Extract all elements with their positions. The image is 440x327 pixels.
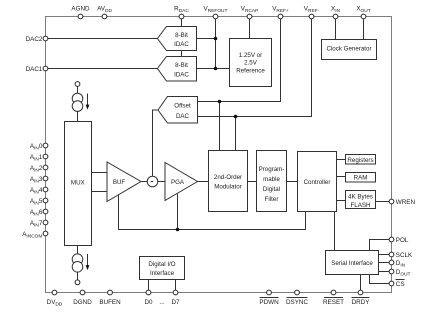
wire filter to controller — [287, 181, 298, 183]
svg-text:BUF: BUF — [113, 179, 126, 186]
svg-text:VREF-: VREF- — [304, 6, 320, 15]
svg-text:RDAC: RDAC — [174, 6, 189, 15]
buffer amp BUF — [107, 162, 141, 202]
svg-text:Modulator: Modulator — [214, 183, 242, 190]
wire serial interface to POL pin — [370, 240, 390, 251]
wire flash to WREN pin — [376, 201, 390, 203]
clock generator U_CLK — [322, 40, 377, 60]
pin RESET — [323, 290, 344, 306]
svg-text:RESET: RESET — [323, 299, 344, 306]
wire VREF- tap to modulator top — [235, 117, 237, 151]
svg-text:IDAC: IDAC — [174, 72, 189, 79]
wire digital IO to D0 pin — [148, 280, 150, 291]
svg-text:Clock Generator: Clock Generator — [326, 46, 371, 53]
svg-text:Serial Interface: Serial Interface — [331, 260, 373, 267]
pin VREF+ — [272, 6, 289, 19]
pin DAC2 — [26, 36, 48, 43]
pin D7 — [171, 290, 180, 306]
svg-text:Interface: Interface — [150, 270, 175, 277]
svg-text:SCLK: SCLK — [396, 252, 413, 259]
svg-text:MUX: MUX — [71, 179, 85, 186]
svg-text:AIN2: AIN2 — [30, 165, 43, 174]
wire DAC2 to IDAC2 input — [48, 38, 158, 40]
summing node — [147, 176, 158, 187]
pin AIN0 — [30, 143, 48, 152]
svg-text:DAC1: DAC1 — [26, 66, 43, 73]
svg-text:AGND: AGND — [71, 6, 90, 13]
4K bytes FLASH block — [346, 191, 376, 210]
digital IO interface U_DIO — [140, 257, 185, 280]
wire digital IO to D7 pin — [175, 280, 177, 291]
wire XIN to clock generator — [335, 19, 337, 40]
wire VREF- to offset DAC bottom input — [198, 19, 312, 117]
pin VREFOUT — [204, 6, 228, 19]
junction VREFOUT-IDAC2 — [214, 37, 218, 41]
svg-text:RAM: RAM — [354, 175, 368, 182]
wire IDAC2 bottom to IDAC1 top — [181, 51, 183, 57]
wire feedback controller to BUF — [119, 195, 306, 229]
svg-text:Digital: Digital — [263, 186, 280, 193]
svg-text:D7: D7 — [171, 299, 180, 306]
svg-text:AIN5: AIN5 — [30, 198, 43, 207]
pin PDWN — [259, 290, 279, 306]
pin BUFEN — [99, 290, 121, 306]
svg-text:AVDD: AVDD — [97, 6, 112, 15]
pin POL — [389, 237, 409, 244]
svg-text:AIN1: AIN1 — [30, 154, 43, 163]
svg-text:1.25V or: 1.25V or — [239, 52, 262, 59]
programmable digital filter U_FILT — [257, 151, 287, 212]
pin AIN3 — [30, 176, 48, 185]
svg-text:DGND: DGND — [73, 299, 92, 306]
svg-text:AIN3: AIN3 — [30, 176, 43, 185]
pin VRCAP — [241, 6, 259, 19]
svg-text:4K Bytes: 4K Bytes — [348, 194, 373, 201]
svg-text:XOUT: XOUT — [356, 6, 370, 15]
svg-text:Offset: Offset — [174, 103, 191, 110]
junction VREFOUT-IDAC1 — [214, 67, 218, 71]
current source bottom (burnout detect) — [72, 246, 89, 285]
wire PGA to modulator — [198, 181, 209, 183]
pin SCLK — [389, 252, 413, 259]
wire controller to flash — [337, 200, 346, 202]
wire VRCAP pin to reference top — [249, 19, 251, 39]
svg-text:VREFOUT: VREFOUT — [204, 6, 228, 15]
pin AIN2 — [30, 165, 48, 174]
svg-text:CS: CS — [396, 281, 405, 288]
svg-text:2nd-Order: 2nd-Order — [214, 174, 242, 181]
junction VREF- modulator tap — [234, 115, 238, 119]
wire controller to RAM — [337, 176, 346, 178]
svg-text:PDWN: PDWN — [259, 299, 279, 306]
svg-text:DIN: DIN — [396, 260, 406, 269]
svg-text:DSYNC: DSYNC — [286, 299, 308, 306]
svg-text:Program-: Program- — [259, 166, 285, 173]
pin DRDY — [352, 290, 371, 306]
pin AGND — [71, 6, 90, 19]
wire feedback tap to PGA — [177, 194, 179, 230]
svg-text:AIN0: AIN0 — [30, 143, 43, 152]
svg-text:BUFEN: BUFEN — [99, 299, 121, 306]
pin XIN — [331, 6, 341, 19]
svg-text:mable: mable — [263, 176, 280, 183]
pin DGND — [73, 290, 92, 306]
pin VREF- — [304, 6, 320, 19]
pin AINCOM — [22, 231, 48, 240]
pin WREN — [389, 199, 415, 206]
svg-text:IDAC: IDAC — [174, 41, 189, 48]
wire serial interface to DOUT pin — [379, 271, 390, 273]
wire MUX to BUF input b — [92, 191, 108, 193]
pin D0 — [144, 290, 153, 306]
svg-text:DVDD: DVDD — [47, 299, 63, 308]
pin AIN5 — [30, 198, 48, 207]
2nd-order modulator U_MOD — [209, 151, 248, 212]
svg-text:Filter: Filter — [265, 196, 279, 203]
serial interface U_SER — [326, 251, 379, 275]
8-bit IDAC1 — [157, 57, 196, 82]
svg-text:8-Bit: 8-Bit — [175, 32, 188, 39]
mux U_MUX — [65, 122, 92, 246]
wire RDAC pin down to IDAC2 top — [181, 19, 183, 27]
pin DIN — [389, 260, 406, 269]
wire XOUT to clock generator — [363, 19, 365, 40]
pin CS — [389, 280, 404, 288]
svg-text:DRDY: DRDY — [352, 299, 371, 306]
RAM block — [346, 173, 376, 183]
wire MUX to BUF input a — [92, 172, 108, 174]
svg-text:AIN6: AIN6 — [30, 209, 43, 218]
svg-text:Controller: Controller — [304, 179, 331, 186]
svg-text:2.5V: 2.5V — [244, 60, 258, 67]
wire controller to registers — [337, 159, 346, 161]
junction feedback PGA tap — [176, 228, 180, 232]
wire DAC1 to IDAC1 input — [48, 68, 158, 70]
svg-text:XIN: XIN — [331, 6, 341, 15]
pin AVDD — [97, 6, 112, 19]
pin RDAC — [174, 6, 189, 19]
wire serial interface to DIN pin — [379, 262, 390, 264]
junction VREF+ modulator tap — [218, 100, 222, 104]
current source top (burnout detect) — [72, 82, 89, 122]
controller U_CTRL — [298, 152, 337, 212]
PGA amp — [165, 163, 198, 201]
pin AIN7 — [30, 220, 48, 229]
8-bit IDAC2 — [157, 27, 196, 51]
svg-text:FLASH: FLASH — [351, 202, 371, 209]
pin AIN4 — [30, 187, 48, 196]
svg-text:PGA: PGA — [171, 179, 185, 186]
pin DOUT — [389, 269, 410, 278]
wire serial interface to SCLK pin — [379, 254, 390, 256]
pin AIN6 — [30, 209, 48, 218]
wire summing node to PGA — [158, 181, 165, 183]
svg-text:DOUT: DOUT — [396, 269, 411, 278]
svg-text:VREF+: VREF+ — [272, 6, 289, 15]
wire offset DAC output to summing node — [153, 110, 158, 176]
svg-text:AIN7: AIN7 — [30, 220, 43, 229]
svg-text:8-Bit: 8-Bit — [175, 62, 188, 69]
svg-text:POL: POL — [396, 237, 409, 244]
svg-text:DAC: DAC — [176, 113, 190, 120]
svg-text:Reference: Reference — [236, 67, 265, 74]
voltage reference U_REF — [230, 39, 272, 87]
svg-text:...: ... — [159, 299, 164, 306]
wire VREF+ to offset DAC top input — [198, 19, 281, 102]
wire modulator to filter — [248, 181, 257, 183]
svg-text:WREN: WREN — [396, 199, 416, 206]
wire BUF output to summing node — [141, 181, 147, 183]
svg-text:Digital I/O: Digital I/O — [148, 261, 175, 268]
svg-text:VRCAP: VRCAP — [241, 6, 259, 15]
registers block — [346, 155, 376, 165]
svg-text:AIN4: AIN4 — [30, 187, 43, 196]
wire VREFOUT net vertical — [215, 19, 217, 69]
svg-text:Registers: Registers — [347, 157, 373, 164]
svg-text:D0: D0 — [144, 299, 153, 306]
pin DVDD — [47, 290, 63, 308]
pin DAC1 — [26, 66, 48, 73]
offset DAC — [158, 97, 198, 124]
pin AIN1 — [30, 154, 48, 163]
chip outer border — [46, 17, 392, 293]
wire IDAC2 output to VREFOUT net — [197, 38, 216, 40]
svg-text:AINCOM: AINCOM — [22, 231, 42, 240]
wire IDAC1 output to reference box — [197, 68, 230, 70]
wire serial interface to CS pin — [370, 275, 390, 284]
pin DSYNC — [286, 290, 308, 306]
pin XOUT — [356, 6, 370, 19]
wire controller to serial interface — [334, 212, 336, 251]
wire serial interface to DRDY pin — [360, 275, 362, 291]
wire VREF+ tap to modulator top — [219, 102, 221, 151]
svg-text:DAC2: DAC2 — [26, 36, 43, 43]
